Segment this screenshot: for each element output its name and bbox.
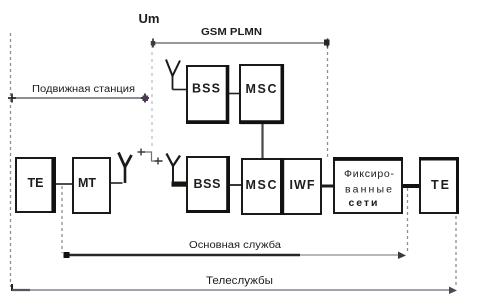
svg-text:Основная служба: Основная служба — [189, 239, 281, 251]
svg-text:MSC: MSC — [246, 178, 277, 192]
svg-text:MT: MT — [78, 176, 96, 190]
svg-text:BSS: BSS — [194, 177, 221, 191]
svg-text:Подвижная станция: Подвижная станция — [32, 84, 135, 95]
svg-text:TE: TE — [28, 176, 44, 190]
svg-text:IWF: IWF — [290, 178, 315, 192]
svg-text:BSS: BSS — [192, 82, 220, 96]
svg-text:TE: TE — [431, 178, 449, 192]
svg-text:Телеслужбы: Телеслужбы — [206, 275, 273, 287]
svg-text:сети: сети — [349, 197, 378, 209]
svg-text:Фиксиро-: Фиксиро- — [344, 168, 395, 180]
svg-text:GSM PLMN: GSM PLMN — [201, 26, 262, 38]
svg-text:MSC: MSC — [246, 82, 277, 96]
svg-text:Um: Um — [139, 11, 160, 26]
